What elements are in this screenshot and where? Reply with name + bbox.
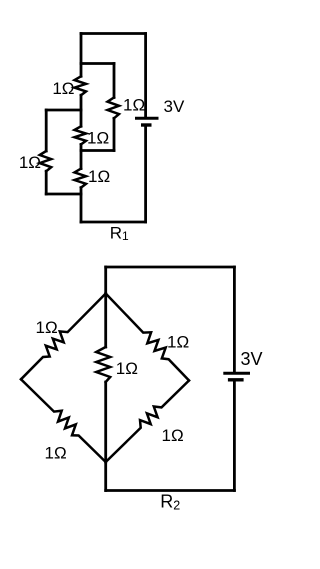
wire: circuit-2 right upper (to battery +) [233, 267, 236, 372]
resistor 1ohm (middle branch) [96, 347, 110, 382]
wire: inner-right branch bottom [81, 149, 114, 152]
resistor 1ohm (bus middle) [75, 126, 87, 144]
svg-text:1Ω: 1Ω [116, 359, 138, 378]
svg-text:1Ω: 1Ω [167, 333, 189, 352]
wire: inner-right branch lower [113, 118, 116, 150]
wire: left branch top [46, 109, 81, 112]
wire: inner-right branch upper [113, 64, 116, 98]
resistor 1ohm (left branch) [40, 151, 52, 171]
svg-text:3V: 3V [241, 349, 263, 369]
battery V2 negative plate (short) [228, 378, 244, 381]
svg-text:R2: R2 [160, 491, 180, 512]
resistor 1ohm (top-right diagonal) [106, 294, 189, 381]
wire: bus bottom segment [80, 188, 83, 222]
battery V1 negative plate (short) [141, 123, 152, 126]
wire: left branch bottom [46, 193, 81, 196]
svg-text:1Ω: 1Ω [88, 167, 110, 186]
svg-text:1Ω: 1Ω [87, 129, 109, 148]
svg-text:1Ω: 1Ω [123, 96, 145, 115]
svg-text:1Ω: 1Ω [19, 153, 41, 172]
wire: circuit-1 right upper (to battery +) [144, 34, 147, 117]
battery V2 positive plate (long) [223, 372, 250, 375]
wire: circuit-2 bottom [106, 489, 235, 492]
wire: middle branch upper [104, 294, 107, 348]
resistor 1ohm (inner-right branch) [108, 98, 120, 119]
resistor 1ohm (bottom-right diagonal) [106, 381, 189, 463]
resistor 1ohm (bus upper) [75, 76, 87, 95]
wire: circuit-2 top [106, 266, 235, 269]
wire: bus segment 3 [80, 144, 83, 168]
resistor 1ohm (bottom-left diagonal) [21, 379, 106, 462]
wire: left branch upper [45, 110, 48, 151]
wire: top vertex stub [104, 267, 107, 294]
svg-text:1Ω: 1Ω [162, 426, 184, 445]
wire: bus top segment [80, 34, 83, 77]
wire: middle branch lower [104, 382, 107, 462]
wire: left branch lower [45, 171, 48, 194]
resistor 1ohm (top-left diagonal) [21, 294, 106, 380]
wire: bottom vertex stub [104, 462, 107, 491]
wire: circuit-1 right lower (from battery -) [144, 126, 147, 222]
wire: circuit-2 right lower (from battery -) [233, 381, 236, 491]
wire: circuit-1 top [81, 32, 146, 35]
resistor 1ohm (bus lower) [75, 169, 87, 188]
svg-text:3V: 3V [164, 97, 185, 116]
battery V1 positive plate (long) [135, 117, 159, 120]
wire: bus segment 2 [80, 95, 83, 126]
svg-text:R1: R1 [110, 224, 129, 244]
wire: inner-right branch top [81, 62, 114, 65]
svg-text:1Ω: 1Ω [45, 444, 67, 463]
wire: circuit-1 bottom [81, 221, 146, 224]
svg-text:1Ω: 1Ω [52, 79, 74, 98]
svg-text:1Ω: 1Ω [36, 318, 58, 337]
